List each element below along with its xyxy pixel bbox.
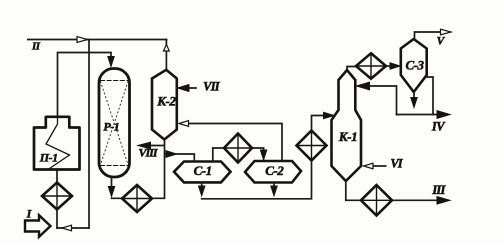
svg-text:VIII: VIII	[138, 146, 158, 160]
wire C-2 gas to K-2	[188, 124, 282, 162]
reactor Р-1	[99, 69, 130, 178]
svg-text:III: III	[431, 182, 446, 197]
heat exchanger E1 (diamond with cross) on I riser	[42, 183, 72, 210]
wire C-2 bottom outlet	[273, 183, 275, 189]
arrow hollow left on bottom recycle line	[62, 225, 72, 231]
wire to separator C-1	[166, 154, 195, 162]
wire recycle bottom line to I junction	[57, 227, 89, 229]
separator С-1	[174, 162, 231, 183]
svg-text:С-3: С-3	[406, 57, 425, 72]
arrow solid down C-3 bottoms	[411, 98, 417, 108]
arrow solid right into C-3	[390, 63, 400, 69]
arrow solid down C-2 bottoms	[271, 186, 277, 196]
heat exchanger E4 (diamond with cross) on K-1 feed riser	[297, 131, 327, 161]
wire cooler line to K-2 riser	[112, 140, 165, 199]
wire E5 to C-3	[386, 65, 392, 67]
wire IV header	[397, 114, 441, 116]
wire K-2 overhead to top line	[165, 40, 167, 70]
arrow solid left reflux into K-1	[357, 82, 370, 90]
wire E4 to K-1 inlet	[312, 116, 325, 131]
separator С-2	[245, 161, 301, 183]
svg-text:С-1: С-1	[194, 163, 212, 178]
svg-text:П-1: П-1	[39, 151, 58, 165]
arrow solid down into reactor P-1	[108, 57, 114, 67]
wire I riser through exchanger to furnace	[56, 170, 58, 229]
wire C-3 side draw to IV header	[427, 77, 433, 115]
arrow solid down C-1 bottoms	[199, 186, 205, 196]
arrow solid left stream VII into K-2	[178, 87, 196, 89]
furnace coil zigzag	[46, 117, 70, 169]
arrow solid right into C-1 line	[166, 151, 177, 158]
wire bottoms header to K-1 riser	[202, 161, 312, 199]
wire E3 to C-2	[252, 148, 264, 152]
svg-text:V: V	[437, 36, 446, 48]
arrow hollow up K-2 overhead	[164, 45, 170, 52]
svg-text:IV: IV	[431, 120, 446, 134]
wire stream VIII from K-2 bottom	[140, 145, 164, 147]
arrow hollow right on II line	[77, 37, 88, 43]
arrow solid right stream III	[437, 197, 450, 205]
furnace П-1	[34, 117, 80, 170]
arrow hollow left into K-2 right side	[179, 121, 189, 127]
arrow hollow right stream V	[441, 29, 452, 35]
wire furnace outlet to reactor	[58, 53, 112, 118]
wire reflux from IV header to K-1	[368, 86, 397, 115]
column К-1	[332, 70, 362, 181]
column К-2	[152, 70, 177, 140]
svg-text:К-1: К-1	[338, 129, 357, 144]
node junction II/recycle at x89	[88, 40, 90, 229]
arrow solid right into K-1	[324, 112, 335, 118]
arrow solid right stream IV	[437, 111, 450, 119]
svg-text:VI: VI	[390, 157, 403, 171]
wire C-1 overhead to exchanger E3	[213, 148, 224, 162]
wire K-1 overhead to E5	[347, 67, 356, 71]
svg-text:II: II	[31, 41, 41, 53]
heat exchanger E2 (diamond with cross) after reactor	[122, 185, 152, 212]
wire C-1 bottom outlet	[201, 182, 203, 188]
svg-text:С-2: С-2	[265, 163, 284, 178]
svg-text:VII: VII	[203, 80, 221, 94]
heat exchanger E5 (diamond with cross) condenser	[356, 53, 386, 78]
wire stream II top line	[28, 39, 167, 41]
svg-text:Р-1: Р-1	[103, 119, 119, 133]
heat exchanger E3 (diamond with cross)	[224, 134, 252, 163]
arrow hollow left stream VI into K-1	[372, 165, 386, 167]
arrow solid left VIII	[138, 142, 151, 149]
wire K-1 bottom to E6 and III	[346, 181, 440, 200]
wire C-3 top to stream V	[415, 32, 442, 39]
separator С-3	[401, 39, 427, 92]
wire C-3 bottom outlet	[413, 92, 415, 99]
arrow solid down from reactor onto cooler line	[108, 187, 114, 197]
wire reactor bottom outlet	[111, 177, 113, 188]
svg-text:I: I	[26, 207, 33, 221]
svg-text:К-2: К-2	[156, 93, 176, 108]
stream I block arrow	[25, 215, 51, 237]
arrow solid down into C-2	[260, 150, 266, 160]
heat exchanger E6 (diamond with cross) on III line	[361, 185, 392, 216]
